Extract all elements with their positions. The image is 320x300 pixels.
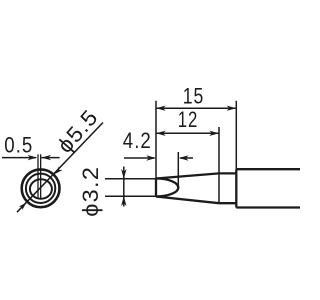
svg-text:4.2: 4.2: [123, 128, 152, 153]
svg-text:15: 15: [183, 84, 205, 109]
svg-text:ϕ3.2: ϕ3.2: [78, 166, 103, 217]
svg-text:0.5: 0.5: [4, 133, 33, 158]
svg-text:12: 12: [178, 107, 199, 132]
